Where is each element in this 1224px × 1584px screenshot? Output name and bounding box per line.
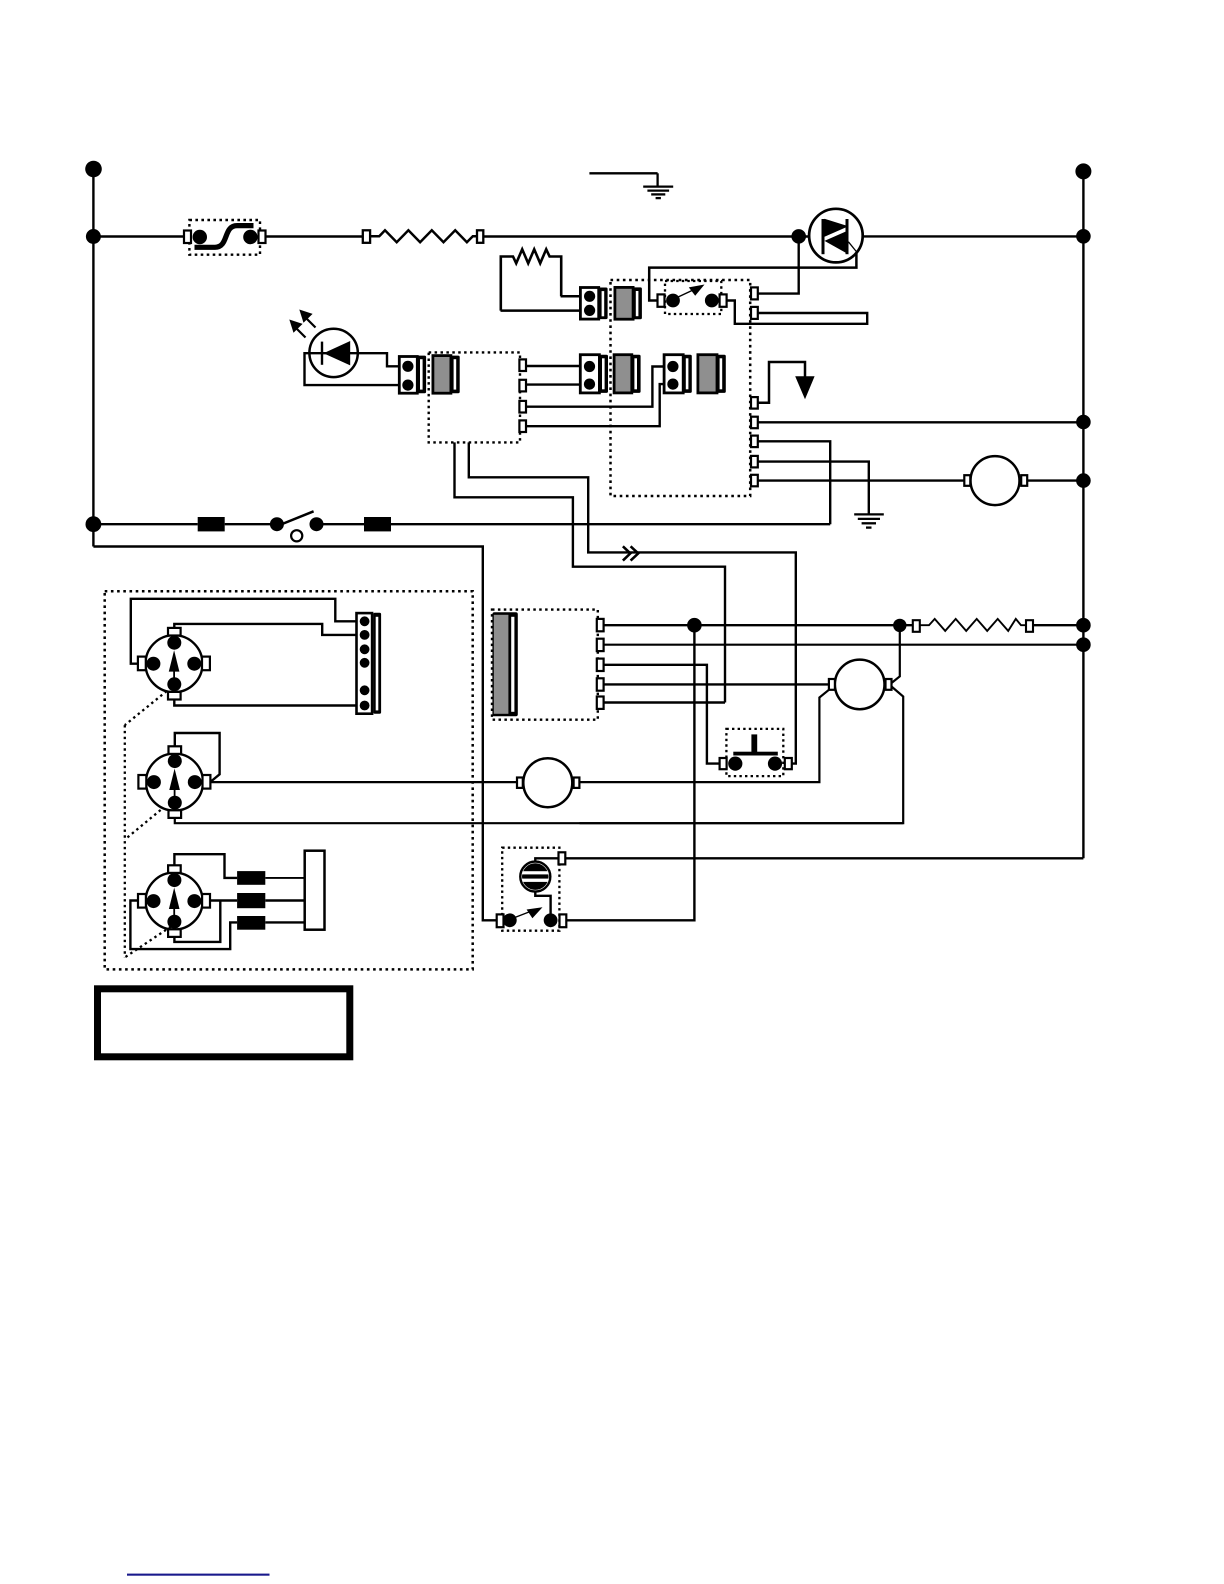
wire H1 to mold body [265,877,305,879]
control board connector dotted box [492,610,598,720]
relay K2 contact block (LED driver) [399,356,426,394]
wire right rail bottom elbow to thermostat [565,857,1083,859]
pin timer P5 [751,397,758,409]
node thermostat switch left contact [503,913,517,927]
wire left rail vertical [92,169,94,547]
node L1 (line terminal dot top-left) [85,161,102,178]
pin J-E [597,697,604,709]
switch arm arrow [676,285,705,299]
pin fuse right [259,231,266,244]
node fuse left contact [193,230,207,244]
pin pushbutton right [785,758,792,769]
pin J-B [597,639,604,651]
blue footer line [127,1574,270,1576]
pin J-D [597,678,604,690]
wire R2 leads to defrost relay contacts [561,295,581,298]
pin thermostat top-right [559,852,566,864]
wire CS2 top pin loop to right pin [175,733,220,781]
wire CS1 top pin to strip dot 2 [174,624,357,635]
LED emission arrow 1 [289,320,305,338]
terminal strip TS [357,613,382,714]
wire CS3 right pin to heater H2 junction [210,899,237,901]
compressor motor M3 [829,660,892,710]
wire P5 to down-arrow (antenna) [758,362,805,403]
wire switch row left segment [93,523,197,525]
heater H1 (black rect) [237,871,265,885]
wire CS3 bottom pin loop [174,901,220,942]
legend box [98,989,350,1057]
wire triac to right rail [863,235,1084,237]
pin timer P8 [751,456,758,468]
node thermostat switch right contact [544,913,558,927]
pin switch left [658,294,665,306]
wire top row: rail to fuse [93,235,185,237]
cam switch CS2 [138,746,210,818]
pin timer P7 [751,436,758,448]
pin box P2 [519,380,526,392]
mold body plate [305,851,325,930]
ground G2 [854,514,884,527]
wire TH1 top to pin [535,858,558,862]
linkage diagonal to CS3 [125,927,171,958]
pin timer P9 [751,475,758,487]
pin fuse left [184,231,191,244]
pin timer P6 [751,417,758,429]
fuse link F2 (black rect) [364,517,391,531]
wire H2 to mold body [265,899,305,901]
node N1 (neutral terminal dot top-right) [1075,163,1091,179]
pin timer T2 (heater loop bottom) [751,307,758,319]
wire net E: pin J-E to W1 corner [604,701,725,703]
node switch contact right [705,294,719,308]
relay K4 coil [698,355,726,393]
pin J-A [597,619,604,631]
relay K1 coil [615,287,642,319]
wire LED anode to relay K2 top contact [358,353,400,366]
pin R1 right terminal [477,230,483,243]
pin thermostat right [560,914,567,927]
wire net C: pin J-C to pushbutton left [604,665,720,764]
node junction gate branch [791,229,806,244]
cam switch CS1 [138,628,210,700]
wire P6 to right rail [758,421,1083,423]
node junction right rail / fan motor wire [1076,473,1091,488]
node junction right rail / connector wire [1076,637,1091,652]
LED D1 indicator [309,329,359,377]
wire right rail vertical [1082,171,1084,858]
heater H2 (black rect) [237,893,265,908]
wire triac gate down-left [649,253,856,301]
node junction net A / thermostat drop [687,618,702,633]
wire R1 to triac [483,235,808,237]
wire P2 to relay K3 bottom contact [526,383,581,385]
node junction net A / compressor drop [893,619,906,632]
connector edge bar [492,612,517,716]
wire P1 to relay K3 top contact [526,365,581,367]
wire H3 to mold body [265,921,305,923]
wire M1 to right rail [1027,479,1083,481]
thermostat sensor TH1 [518,860,553,894]
node fuse right contact [243,230,257,244]
wire R3 to right rail [1033,624,1083,626]
mechanical linkage dotted line vertical [124,725,126,957]
wire CS3 left pin loop to heater H3 [130,901,237,950]
thermal fuse S-element [195,226,254,248]
pin box P4 [519,420,526,432]
triac U1 [809,209,863,263]
ice maker dotted box [105,591,473,969]
wire net D: pin J-D to compressor left pin [604,683,835,685]
pin R3 left terminal [913,620,920,632]
ground G1 top [589,173,673,198]
start relay pushbutton dotted box [726,729,783,776]
fuse link F1 (black rect) [198,517,225,531]
adaptive control dotted box [429,352,520,442]
wire TH1 bottom to switch right contact [535,891,550,921]
thermal fuse dotted box [189,220,260,255]
wire gate branch: junction dot down to thermostat pin T1 [758,236,799,293]
relay K3 coil [614,355,641,393]
heater H3 (black rect) [237,916,265,930]
defrost control dotted box (timer) [611,280,751,496]
node pushbutton contact left [728,757,742,771]
fan motor M1 [964,456,1027,505]
wire to door switch [225,523,277,525]
resistor R1 zigzag [370,230,477,242]
pin box P3 [519,401,526,413]
wire CS2 right pin to fan M2 [210,781,517,783]
wire to fuse link F2 [317,523,365,525]
wire W1 from adaptive box to connector pin E [455,442,726,702]
pin J-C [597,659,604,671]
node pushbutton contact right [768,757,782,771]
node junction left rail / switch row [86,516,102,532]
wire net A: pin J-A to resistor R3 [604,624,913,626]
ice maker fan motor M2 [517,758,579,807]
wire P4 to relay K4 bottom contact [526,384,665,426]
resistor R2 zigzag loop [501,249,561,310]
wire CS3 top pin to heater H1 [174,854,237,878]
wire P7 down to switch row [758,441,830,524]
relay K2 coil [433,356,460,394]
chevron connector marks [623,546,638,560]
pin R1 left terminal [363,230,370,243]
pushbutton plunger [733,734,778,755]
wire LED cathode loop to relay K2 bottom contact [305,353,400,385]
node junction right rail / resistor wire [1076,618,1091,633]
resistor R3 zigzag [920,619,1026,631]
wire M3 left pin down to start wire [579,690,829,782]
relay K3 contact block [580,355,608,393]
linkage diagonal to CS2 [125,810,161,840]
wire CS2 bottom pin to run line [175,818,903,823]
linkage diagonal to CS1 [125,691,167,725]
wire thermostat right pin to net A drop [566,625,694,920]
relay K4 contact block [664,355,692,393]
node switch contact left [666,294,680,308]
door switch S1 [270,511,324,541]
wire CS1 left pin to strip dot 1 [131,599,357,664]
wire M3 right pin up to net A junction [892,625,900,683]
pin R3 right terminal [1026,620,1033,632]
thermostat dotted box [502,848,559,931]
pin switch right [720,294,727,306]
wire P3 to relay K4 top contact [526,367,665,407]
down arrow symbol [795,376,814,399]
node junction right rail / top row [1076,229,1091,244]
defrost bimetal switch dotted box [665,281,721,314]
wire CS1 bottom pin to strip dot 6 [174,700,357,706]
cam switch CS3 [138,865,210,937]
wire net B: pin J-B to right rail [604,644,1084,646]
thermostat switch arm arrow [514,907,543,918]
pin box P1 [519,359,526,371]
pin pushbutton left [720,758,727,769]
node junction right rail / timer pin wire [1076,415,1091,430]
wire defrost heater loop from pin T2 [727,301,868,324]
wire switch row right segment to timer P7 drop [391,523,830,525]
wire fuse to resistor R1 [266,235,364,237]
wire lower row from left rail to light circuit [93,547,496,921]
pin thermostat left [497,914,504,927]
node junction left rail / top row [86,229,101,244]
pin timer T1 (heater loop top) [751,287,758,299]
wire P9 to fan motor M1 [758,479,965,481]
wire P8 to ground G2 [758,462,869,514]
relay K1 contact block (defrost) [580,288,607,320]
wire M3 right pin down to run wire [580,687,904,824]
LED emission arrow 2 [299,310,315,328]
wire W2 from adaptive box to chevron link [469,442,796,763]
